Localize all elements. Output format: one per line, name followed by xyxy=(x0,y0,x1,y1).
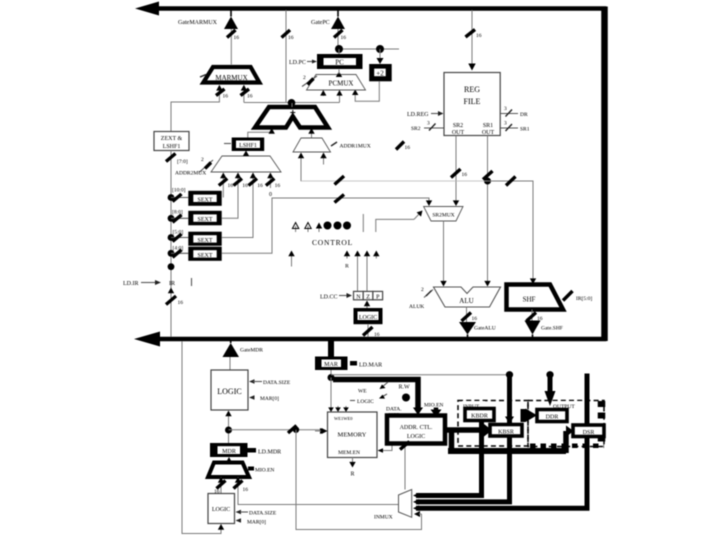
svg-text:16: 16 xyxy=(275,183,281,189)
svg-text:ADDR. CTL.: ADDR. CTL. xyxy=(400,425,433,431)
register KBDR xyxy=(465,409,494,421)
svg-text:LD.PC: LD.PC xyxy=(289,60,306,66)
svg-text:16: 16 xyxy=(472,316,478,322)
label MIO.EN xyxy=(248,467,274,474)
svg-text:LD.MDR: LD.MDR xyxy=(258,450,281,456)
wire MDR line to memory data in xyxy=(229,426,327,435)
wire INMUX output to MIO.EN mux right input xyxy=(234,477,399,505)
svg-text:MARMUX: MARMUX xyxy=(215,74,247,82)
svg-text:MAR[0]: MAR[0] xyxy=(260,396,279,402)
label MIO.EN (addr ctl input) xyxy=(424,403,443,418)
label MAR[0] into logic xyxy=(249,395,279,402)
svg-text:FILE: FILE xyxy=(464,97,481,106)
svg-text:SEXT: SEXT xyxy=(198,253,213,259)
label LD.IR xyxy=(123,280,161,287)
svg-text:LOGIC: LOGIC xyxy=(217,387,241,396)
wire INMUX input arrows xyxy=(413,493,419,511)
wire LSHF1 output to adder left input xyxy=(248,128,275,138)
svg-text:LOGIC: LOGIC xyxy=(407,434,425,440)
wire SEXT[10:0] to ADDR2MUX xyxy=(219,173,233,198)
svg-text:ADDR1MUX: ADDR1MUX xyxy=(340,144,371,150)
wire SR1 branch right to SHF with 16 slash xyxy=(488,177,537,285)
wire MAR address thin line right xyxy=(331,371,554,378)
svg-text:KBDR: KBDR xyxy=(471,414,488,420)
register MAR xyxy=(315,357,348,371)
label LD.PC xyxy=(289,60,317,67)
block LOGIC (data size logic) xyxy=(211,370,248,410)
block ZEXT & LSHF1 xyxy=(154,132,189,151)
svg-text:3: 3 xyxy=(427,121,430,127)
wire control select to SR2MUX xyxy=(376,211,423,233)
label LD.MAR xyxy=(350,361,382,369)
svg-text:LD.REG: LD.REG xyxy=(407,112,429,118)
svg-text:16: 16 xyxy=(476,33,482,39)
adder +2 xyxy=(369,64,392,81)
wire ALU output with 16 slash xyxy=(462,307,478,322)
svg-text:DSR: DSR xyxy=(583,430,595,436)
wire ADDR CTL select to INMUX with slash xyxy=(400,442,410,490)
svg-text:OUT: OUT xyxy=(482,130,495,136)
svg-text:R: R xyxy=(350,472,354,478)
svg-text:SR2: SR2 xyxy=(453,123,463,129)
svg-text:INMUX: INMUX xyxy=(374,515,393,521)
svg-text:16: 16 xyxy=(247,94,253,100)
wire ADDR1MUX output to adder right input xyxy=(308,128,314,138)
wire MDR data into memory xyxy=(322,428,328,434)
register IR xyxy=(169,278,192,287)
svg-text:GatePC: GatePC xyxy=(311,20,330,26)
mux MIO.EN (MDR input mux) xyxy=(208,457,249,477)
svg-text:R: R xyxy=(345,264,349,270)
svg-text:ZEXT &: ZEXT & xyxy=(161,136,183,142)
svg-text:DATA.SIZE: DATA.SIZE xyxy=(263,380,291,386)
wire SEXT[5:0] to ADDR2MUX xyxy=(222,173,263,238)
register MDR xyxy=(210,443,248,457)
wire memory R output xyxy=(349,458,355,478)
wire 16 slash floating right of ADDR1MUX xyxy=(396,142,410,152)
svg-text:N: N xyxy=(356,294,361,300)
label DATA.SIZE into logic2 xyxy=(236,510,277,517)
svg-text:3: 3 xyxy=(504,106,507,112)
register PC xyxy=(317,54,363,69)
svg-text:16: 16 xyxy=(242,183,248,189)
wire bus to MAR (thick) xyxy=(328,341,334,357)
svg-text:SR1: SR1 xyxy=(520,127,530,133)
wire MARMUX to gate with 16 slash xyxy=(227,29,239,65)
svg-text:SEXT: SEXT xyxy=(198,238,213,244)
svg-text:MAR: MAR xyxy=(324,362,338,368)
wire control outputs up with ellipsis dots xyxy=(292,214,363,232)
block WE LOGIC xyxy=(350,382,388,405)
wire constant 0 to ADDR2MUX xyxy=(266,173,280,199)
svg-text:Z: Z xyxy=(366,294,370,300)
wire SR2MUX output to ALU xyxy=(440,221,446,287)
svg-text:ALU: ALU xyxy=(459,297,473,305)
wire bus to CC logic with 16 slash xyxy=(363,325,380,339)
register DDR xyxy=(537,410,567,422)
svg-text:REG: REG xyxy=(464,85,480,94)
svg-text:GateALU: GateALU xyxy=(474,326,496,332)
svg-text:16: 16 xyxy=(257,183,263,189)
label MAR[0] into logic2 xyxy=(236,518,267,525)
svg-text:OUT: OUT xyxy=(452,130,465,136)
mux MARMUX xyxy=(200,67,259,83)
wire KBDR output to INMUX (thick) xyxy=(416,420,484,496)
wire SEXT[4:0] to SR2MUX xyxy=(222,195,433,254)
wire IR[7:0] into ZEXT with slash xyxy=(166,151,188,198)
register N Z P condition codes xyxy=(354,291,383,300)
wire PC to GatePC with 16 slash xyxy=(334,29,346,49)
register DSR xyxy=(573,425,604,437)
svg-text:[10:0]: [10:0] xyxy=(172,188,186,194)
mux SR2MUX xyxy=(424,207,463,222)
wire MDR to logic with junction xyxy=(225,411,232,444)
svg-text:LSHF1: LSHF1 xyxy=(163,144,181,150)
gate GateALU xyxy=(459,322,496,337)
svg-text:KBSR: KBSR xyxy=(498,430,514,436)
mux PCMUX xyxy=(302,70,366,91)
svg-text:IR: IR xyxy=(169,281,175,287)
label R.W xyxy=(399,385,411,402)
block SEXT [4:0] xyxy=(171,246,222,261)
block REG FILE xyxy=(444,73,500,137)
svg-text:16: 16 xyxy=(288,35,294,41)
register IR line with taps xyxy=(166,194,183,337)
wire PCMUX inputs xyxy=(320,90,342,103)
wire ADDR CTL to MEM.EN xyxy=(378,444,393,453)
svg-text:16: 16 xyxy=(405,145,411,151)
svg-text:ALUK: ALUK xyxy=(409,304,424,310)
register KBSR xyxy=(490,425,522,437)
svg-text:SEXT: SEXT xyxy=(198,217,213,223)
svg-text:LD.CC: LD.CC xyxy=(320,295,338,301)
svg-text:3: 3 xyxy=(504,121,507,127)
block SEXT [5:0] xyxy=(171,230,222,246)
svg-text:16: 16 xyxy=(178,300,184,306)
svg-text:0: 0 xyxy=(269,192,272,198)
wire SR2 OUT to SR2MUX xyxy=(451,136,467,206)
block LOGIC (condition code logic) xyxy=(354,301,383,325)
svg-text:16: 16 xyxy=(223,94,229,100)
wire bus feed down left side to logic2 xyxy=(182,341,224,534)
block LSHF1 xyxy=(224,138,264,152)
svg-text:MDR: MDR xyxy=(222,449,236,455)
svg-text:SEXT: SEXT xyxy=(198,197,213,203)
gate GateMARMUX xyxy=(178,10,238,29)
svg-text:[7:0]: [7:0] xyxy=(177,159,188,165)
svg-text:SR2MUX: SR2MUX xyxy=(432,213,454,219)
node PC output junction xyxy=(335,45,399,54)
label LD.REG xyxy=(407,111,444,118)
wire thick bar to DSR xyxy=(448,426,574,454)
label SR2 select xyxy=(411,121,444,133)
mux ADDR2MUX xyxy=(175,156,281,177)
svg-text:DR: DR xyxy=(520,112,528,118)
mux ADDR1MUX xyxy=(293,138,371,152)
wire SR1 OUT down with junction xyxy=(483,136,493,287)
block SEXT [10:0] xyxy=(171,188,222,206)
wire WE arrows into memory top xyxy=(328,406,349,412)
svg-text:+2: +2 xyxy=(376,69,384,77)
block SEXT [8:0] xyxy=(171,210,222,226)
wire ADDR1MUX right input stub xyxy=(320,153,326,165)
svg-text:16: 16 xyxy=(341,35,347,41)
label LD.MDR xyxy=(248,448,282,456)
svg-text:IR[5:0]: IR[5:0] xyxy=(576,296,592,302)
svg-text:2: 2 xyxy=(303,75,306,81)
label SR1 select xyxy=(501,121,530,133)
svg-text:WE1WE0: WE1WE0 xyxy=(334,416,353,421)
label LD.CC xyxy=(320,293,352,301)
svg-text:16: 16 xyxy=(234,35,240,41)
svg-text:CONTROL: CONTROL xyxy=(312,238,353,247)
dashed box OUTPUT xyxy=(528,401,604,448)
wire SEXT[8:0] to ADDR2MUX xyxy=(222,173,248,219)
label IR[5:0] with slash xyxy=(563,291,592,302)
dashed box INPUT xyxy=(458,401,528,447)
register file input wire from bus xyxy=(466,10,482,71)
svg-text:R.W: R.W xyxy=(399,385,411,391)
wire SHF output with 16 slash xyxy=(527,310,543,323)
svg-text:16: 16 xyxy=(462,172,468,178)
svg-text:SR2: SR2 xyxy=(411,126,421,132)
block MEMORY xyxy=(328,412,378,458)
svg-text:16: 16 xyxy=(374,332,380,338)
wire DSR line to INMUX (thick) xyxy=(416,374,590,509)
block ADDR CTL LOGIC xyxy=(387,416,445,444)
svg-text:16: 16 xyxy=(243,487,249,493)
wire adder to MARMUX right input xyxy=(241,85,253,103)
wire logic to GateMDR xyxy=(229,357,231,370)
svg-text:PC: PC xyxy=(335,59,344,67)
svg-text:LOGIC: LOGIC xyxy=(359,315,377,321)
wire into +2 xyxy=(377,49,384,64)
wire bus tap to PCMUX/adder with 16 slash xyxy=(282,10,294,103)
label DATA.SIZE (memory) xyxy=(386,407,402,419)
label DR xyxy=(501,106,528,118)
adder (address adder) xyxy=(255,103,328,128)
svg-text:GateMARMUX: GateMARMUX xyxy=(178,20,218,26)
wire MDR line down to INMUX 4th input xyxy=(296,430,422,530)
label DATA.SIZE into logic xyxy=(249,379,291,386)
wire ADDR2MUX output to LSHF1 xyxy=(243,151,249,157)
shifter SHF xyxy=(507,285,564,310)
wire MAR thick to ADDR CTL xyxy=(333,380,423,416)
svg-text:MEMORY: MEMORY xyxy=(338,432,367,439)
wire ZEXT to MARMUX left input xyxy=(171,85,228,131)
node MAR output junction xyxy=(328,370,335,381)
svg-text:LD.IR: LD.IR xyxy=(123,281,139,287)
gate GateMDR xyxy=(223,341,264,357)
bus (16-bit processor bus loop) xyxy=(134,2,605,347)
svg-text:SR1: SR1 xyxy=(483,123,493,129)
wire SR1 branch left to ADDR1MUX (faint) xyxy=(301,176,488,185)
svg-text:LOGIC: LOGIC xyxy=(212,507,230,513)
svg-text:PCMUX: PCMUX xyxy=(329,80,354,88)
wire ADDR CTL to KBSR (thick) xyxy=(445,424,492,451)
block LOGIC (store data logic) xyxy=(208,494,235,524)
block CONTROL xyxy=(312,238,353,247)
gate GateSHF xyxy=(525,321,563,338)
wire to DDR top (thick arrow) xyxy=(545,375,556,406)
svg-text:2: 2 xyxy=(421,287,424,293)
svg-text:GateMDR: GateMDR xyxy=(240,348,263,354)
svg-text:LSHF1: LSHF1 xyxy=(239,143,257,149)
svg-text:MEM.EN: MEM.EN xyxy=(338,450,360,456)
svg-text:ADDR2MUX: ADDR2MUX xyxy=(175,171,206,177)
svg-text:DDR: DDR xyxy=(546,415,559,421)
svg-text:MIO.EN: MIO.EN xyxy=(255,468,274,474)
svg-text:WE: WE xyxy=(358,389,367,395)
svg-text:2: 2 xyxy=(201,157,204,163)
wire logic2 to MIO.EN mux left input xyxy=(214,477,226,495)
mux INMUX xyxy=(374,490,412,521)
label ALUK xyxy=(409,287,433,310)
svg-text:SHF: SHF xyxy=(523,296,536,304)
svg-text:MIO.EN: MIO.EN xyxy=(424,403,443,409)
svg-text:Gate.SHF: Gate.SHF xyxy=(541,326,563,332)
wire +2 output to PCMUX xyxy=(352,81,379,101)
wire MAR address to memory xyxy=(330,378,332,413)
node adder output junction xyxy=(244,99,340,107)
svg-text:LOGIC: LOGIC xyxy=(357,399,374,405)
wire ADDR1MUX left input from SR1 line xyxy=(298,153,304,182)
svg-text:16: 16 xyxy=(228,183,234,189)
wire control inputs from below xyxy=(288,251,379,292)
svg-text:MAR[0]: MAR[0] xyxy=(247,520,266,526)
alu ALU xyxy=(434,287,501,307)
svg-text:LD.MAR: LD.MAR xyxy=(359,363,382,369)
wire KBSR line to INMUX (thick) xyxy=(416,375,514,502)
gate GatePC xyxy=(311,10,345,29)
svg-text:DATA.SIZE: DATA.SIZE xyxy=(249,511,277,517)
wire arrow into DDR left xyxy=(521,409,538,423)
